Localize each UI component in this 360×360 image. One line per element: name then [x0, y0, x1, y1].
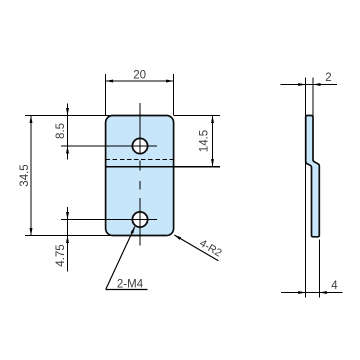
dimension 20 line with arrows	[106, 80, 174, 83]
dimension 8.5 line with outside arrows	[66, 103, 69, 159]
hole top	[132, 138, 147, 153]
side view left extension line (full height)	[305, 78, 307, 298]
extension line plate top left	[25, 115, 111, 117]
svg-text:14.5: 14.5	[199, 130, 211, 152]
side view right top extension line	[312, 78, 314, 116]
svg-text:4: 4	[331, 280, 338, 292]
side view right bottom extension line	[318, 240, 320, 298]
plate front view	[106, 116, 174, 236]
dimension 20 extension lines	[105, 74, 107, 116]
dimension 2 line with outside arrows	[281, 83, 338, 86]
leader 4-R2	[174, 235, 218, 261]
bend line dashed (upper)	[106, 159, 174, 161]
bend line solid (lower, extends to 14.5 dim)	[106, 166, 220, 168]
dimension 34.5 line with arrows	[30, 116, 33, 236]
dimension 4.75 line with outside arrows	[66, 207, 69, 272]
dimension 14.5 line with arrows	[211, 116, 214, 167]
svg-text:20: 20	[133, 70, 146, 82]
dimension 4 line with outside arrows	[281, 291, 343, 294]
svg-text:2: 2	[325, 72, 331, 84]
bottom hole horizontal centerline	[61, 219, 157, 221]
side view bent strip	[306, 116, 320, 237]
svg-text:2-M4: 2-M4	[117, 279, 144, 291]
svg-text:34.5: 34.5	[19, 164, 31, 186]
leader 2-M4	[106, 227, 148, 290]
svg-text:8.5: 8.5	[55, 123, 67, 139]
top hole horizontal centerline	[61, 145, 157, 147]
extension line plate bottom left	[25, 235, 111, 237]
hole bottom	[132, 212, 147, 227]
vertical centerline	[139, 103, 141, 246]
dimension 14.5 top extension line	[174, 115, 220, 117]
svg-text:4.75: 4.75	[55, 244, 67, 266]
